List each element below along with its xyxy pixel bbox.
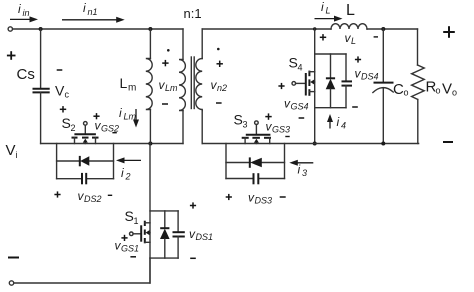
wire capacitor C3 row [226, 178, 285, 180]
wire capacitor C2 row [57, 178, 114, 180]
label + (v_DS3) [226, 194, 232, 200]
label - (v_GS3) [285, 136, 289, 138]
wire S3 snubber right stub [284, 144, 286, 179]
svg-text:Cs: Cs [17, 66, 35, 83]
label - (v_L) [374, 36, 378, 38]
label - (Vc top) [57, 69, 63, 71]
svg-text:i: i [337, 115, 340, 129]
resistor Ro [412, 65, 425, 100]
input terminal + (top left open circle) [8, 27, 12, 31]
label + (v_n2) [217, 61, 223, 67]
svg-text:V: V [55, 83, 65, 99]
svg-text:DS2: DS2 [84, 194, 102, 204]
label i_2 [121, 166, 131, 182]
label S3 [234, 112, 248, 130]
wire Co branch top [382, 29, 384, 83]
svg-text:o: o [436, 86, 441, 96]
label - (output) [443, 141, 453, 143]
label v_Lm [159, 78, 179, 93]
node junction top of Cs [39, 27, 43, 31]
wire Cs branch upper [40, 29, 42, 89]
svg-text:S: S [125, 208, 134, 224]
capacitor Cs [33, 89, 50, 93]
label + (S2 gate left) [60, 106, 66, 112]
wire Lm top [149, 29, 151, 59]
label i_L [321, 0, 331, 16]
label V_c [55, 83, 70, 100]
svg-text:i: i [321, 0, 324, 14]
transistor S4 [292, 71, 315, 96]
capacitor C3 (output capacitance of S3) [254, 173, 259, 184]
svg-text:2: 2 [125, 172, 131, 182]
label V_o [442, 81, 457, 98]
capacitor C2 (output capacitance of S2) [82, 173, 86, 184]
label v_DS4 [355, 67, 379, 82]
label v_L [345, 31, 357, 46]
svg-text:c: c [65, 90, 70, 100]
inductor L [331, 24, 367, 29]
wire top rail primary [13, 28, 184, 30]
wire bottom rail [14, 258, 150, 283]
current arrow i_in [10, 16, 38, 22]
diode D4 (body diode of S4) [326, 54, 336, 108]
wire S4 snubber rect bottom [315, 107, 346, 109]
current arrow i_L [315, 16, 343, 22]
wire Ro branch top [417, 29, 419, 65]
label v_DS1 [189, 227, 213, 242]
wire Ro branch bottom [417, 100, 419, 144]
label - (v_n2) [216, 102, 222, 104]
label + (v_DS2) [54, 191, 60, 197]
wire bottom rail secondary [202, 143, 418, 145]
diode D2 (body diode of S2) [80, 156, 90, 166]
wire top rail after L [367, 28, 418, 30]
wire S4 snubber rect top [315, 53, 346, 55]
capacitor C4 (output capacitance of S4) [342, 54, 353, 108]
svg-text:L: L [351, 36, 356, 46]
label + (input) [7, 51, 16, 60]
wire S1 snubber rect top [150, 210, 178, 212]
current arrow i_2 [116, 157, 141, 163]
label - (v_GS4) [299, 117, 305, 119]
svg-text:DS1: DS1 [196, 232, 214, 242]
svg-text:i: i [119, 106, 122, 120]
wire S4 branch top [314, 29, 316, 144]
svg-text:DS3: DS3 [255, 196, 273, 206]
node junction Co bottom [381, 142, 385, 146]
svg-text:L: L [346, 2, 355, 19]
label i_Lm [119, 106, 137, 122]
wire primary winding bottom [182, 111, 184, 144]
current arrow i_3 [289, 160, 313, 166]
polarity dot secondary winding [217, 48, 220, 51]
label S1 [125, 208, 139, 226]
inductor Lm [146, 59, 152, 110]
label - (v_Lm) [162, 103, 168, 105]
label V_i [6, 142, 18, 160]
svg-text:L: L [326, 6, 331, 16]
wire diode D3 row [226, 162, 285, 164]
svg-text:i: i [298, 163, 301, 177]
wire Lm bottom [149, 110, 151, 144]
label v_GS1 [115, 239, 140, 254]
label i_4 [337, 115, 347, 131]
label - (v_DS2) [108, 194, 112, 196]
node junction Co top [381, 27, 385, 31]
wire secondary winding top [201, 29, 203, 59]
svg-text:4: 4 [298, 63, 303, 73]
svg-text:i: i [121, 166, 124, 180]
transformer core [191, 57, 194, 109]
svg-text:S: S [289, 55, 298, 71]
wire S2 snubber right stub [113, 144, 115, 179]
label - (v_DS3) [280, 196, 286, 198]
diode D3 (body diode of S3) [250, 157, 262, 167]
svg-text:4: 4 [341, 121, 346, 131]
label v_GS4 [284, 97, 309, 112]
svg-text:DS4: DS4 [361, 72, 379, 82]
label + (v_GS3) [265, 113, 271, 119]
wire S1 branch (main vertical) [149, 144, 151, 284]
label Lm [120, 75, 137, 94]
label i_3 [298, 163, 308, 179]
label n:1 [184, 6, 202, 21]
wire Co branch bottom [382, 88, 384, 144]
svg-text:S: S [62, 115, 71, 131]
label + (v_GS2) [93, 113, 99, 119]
svg-text:n1: n1 [88, 7, 98, 17]
label + (v_L) [320, 34, 326, 40]
svg-text:GS1: GS1 [121, 244, 139, 254]
transistor S1 [130, 221, 151, 244]
label - (v_GS2) [112, 132, 116, 134]
label i_n1 [83, 1, 98, 17]
label L [346, 2, 355, 19]
label C_o [393, 81, 409, 98]
diode D1 (body diode of S1) [160, 211, 170, 258]
transformer primary winding [179, 60, 185, 111]
wire S2 snubber left stub [56, 144, 58, 179]
svg-text:i: i [83, 1, 86, 15]
current arrow i_Lm [133, 109, 139, 128]
label + (v_DS4) [355, 56, 361, 62]
label - (v_GS1) [130, 256, 136, 258]
label v_GS3 [266, 120, 291, 135]
label + (v_DS1) [190, 202, 196, 208]
label R_o [426, 79, 441, 96]
svg-text:V: V [442, 81, 452, 98]
svg-text:m: m [128, 83, 136, 94]
svg-text:o: o [452, 88, 457, 98]
svg-text:2: 2 [71, 123, 76, 133]
transistor S3 [242, 121, 271, 144]
label v_DS2 [78, 189, 102, 204]
capacitor Co [373, 83, 394, 93]
node junction top of Lm [148, 27, 152, 31]
label v_GS2 [95, 119, 120, 134]
node junction mid rail / Lm / S1 [148, 142, 152, 146]
label S2 [62, 115, 76, 133]
svg-text:GS4: GS4 [291, 102, 309, 112]
polarity dot primary winding [167, 49, 170, 52]
wire S3 snubber left stub [225, 144, 227, 179]
node junction S4 top [313, 27, 316, 30]
wire primary mid rail [41, 143, 183, 145]
current arrow i_4 [327, 114, 333, 129]
wire Cs branch lower [40, 92, 42, 143]
label Cs [17, 66, 35, 83]
svg-text:i: i [18, 2, 21, 16]
svg-text:S: S [234, 112, 243, 128]
label + (v_GS4) [278, 83, 284, 89]
wire primary winding top [182, 29, 184, 60]
label - (v_DS4) [352, 106, 358, 108]
svg-text:o: o [404, 88, 409, 98]
svg-text:1: 1 [134, 216, 139, 226]
svg-text:C: C [393, 81, 404, 98]
svg-text:n2: n2 [217, 83, 227, 93]
wire top rail secondary [202, 28, 331, 30]
label S4 [289, 55, 303, 73]
svg-text:L: L [120, 75, 128, 91]
svg-text:Lm: Lm [165, 83, 178, 93]
input terminal - (bottom left open circle) [9, 281, 13, 285]
transformer secondary winding [196, 59, 202, 111]
label - (input) [8, 257, 19, 259]
svg-text:GS3: GS3 [272, 125, 290, 135]
label + (output) [443, 26, 455, 38]
label + (v_GS1) [121, 235, 127, 241]
label + (v_Lm) [162, 60, 168, 66]
current arrow i_n1 [62, 17, 125, 23]
label v_DS3 [248, 191, 272, 206]
svg-text:in: in [23, 8, 30, 18]
wire diode D2 row [57, 160, 114, 162]
svg-text:3: 3 [243, 120, 248, 130]
svg-text:3: 3 [302, 168, 307, 178]
label v_n2 [211, 78, 228, 93]
svg-text:n:1: n:1 [184, 6, 202, 21]
wire secondary winding bottom [201, 111, 203, 144]
node junction S4 bottom [313, 142, 317, 146]
svg-text:V: V [6, 142, 16, 159]
label i_in [18, 2, 30, 18]
svg-text:i: i [16, 150, 18, 160]
capacitor C1 (output capacitance of S1) [173, 211, 185, 258]
wire S1 snubber rect bottom [150, 257, 178, 259]
transistor S2 [72, 122, 99, 144]
label - (v_DS1) [190, 257, 196, 259]
